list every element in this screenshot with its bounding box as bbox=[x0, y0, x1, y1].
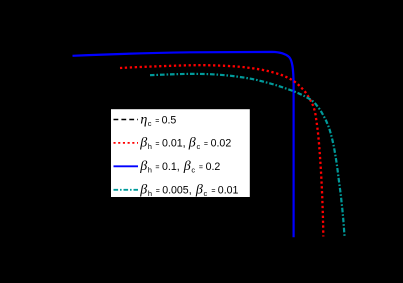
legend sample: blue solid bbox=[114, 165, 139, 167]
curve: beta_h=0.005, beta_c=0.01 (teal dash-dot) bbox=[150, 74, 345, 237]
svg-text:β: β bbox=[188, 135, 196, 150]
svg-text:0.01,: 0.01, bbox=[162, 137, 186, 149]
svg-text:=: = bbox=[156, 188, 160, 195]
svg-text:0.5: 0.5 bbox=[162, 114, 177, 126]
svg-text:h: h bbox=[148, 142, 152, 151]
legend sample: black dashed bbox=[114, 119, 139, 121]
svg-text:β: β bbox=[183, 159, 191, 174]
svg-text:=: = bbox=[155, 164, 159, 171]
curve: beta_h=0.01, beta_c=0.02 (red dotted) bbox=[120, 65, 323, 236]
svg-text:c: c bbox=[148, 119, 152, 128]
svg-text:=: = bbox=[211, 188, 215, 195]
svg-text:β: β bbox=[195, 183, 203, 198]
svg-text:=: = bbox=[155, 118, 159, 125]
svg-text:h: h bbox=[148, 189, 152, 198]
curve: beta_h=0.1, beta_c=0.2 (blue solid) bbox=[73, 52, 294, 237]
svg-text:0.005,: 0.005, bbox=[162, 185, 191, 197]
svg-text:η: η bbox=[140, 112, 147, 127]
legend box bbox=[111, 109, 251, 198]
svg-text:=: = bbox=[204, 141, 208, 148]
svg-text:β: β bbox=[139, 135, 147, 150]
legend sample: teal dash-dot bbox=[114, 189, 139, 191]
svg-text:0.02: 0.02 bbox=[211, 137, 232, 149]
svg-text:β: β bbox=[139, 183, 147, 198]
svg-text:h: h bbox=[148, 166, 152, 175]
svg-text:c: c bbox=[191, 166, 195, 175]
svg-text:0.2: 0.2 bbox=[206, 161, 221, 173]
svg-text:c: c bbox=[197, 142, 201, 151]
svg-text:=: = bbox=[199, 164, 203, 171]
curve: eta_c = 0.5 (black dashed, invisible on black background) bbox=[52, 44, 360, 46]
svg-text:β: β bbox=[139, 159, 147, 174]
svg-text:=: = bbox=[155, 141, 159, 148]
svg-text:0.1,: 0.1, bbox=[162, 161, 180, 173]
legend sample: red dotted bbox=[114, 142, 139, 144]
svg-text:c: c bbox=[204, 189, 208, 198]
svg-text:0.01: 0.01 bbox=[218, 185, 239, 197]
